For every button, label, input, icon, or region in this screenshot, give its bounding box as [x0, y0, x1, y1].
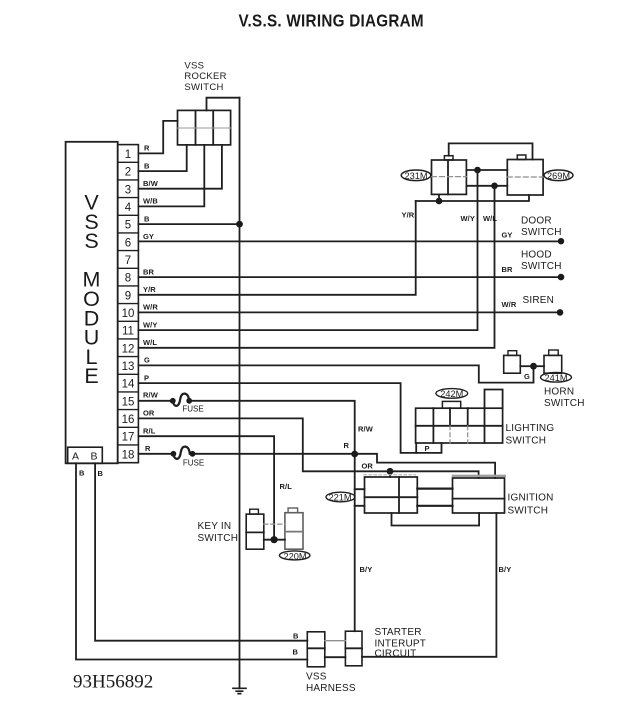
svg-text:B: B	[79, 469, 85, 478]
svg-text:14: 14	[122, 379, 135, 391]
svg-text:S: S	[84, 229, 98, 253]
wire pin11 W/Y	[138, 170, 477, 330]
svg-text:A: A	[72, 451, 79, 463]
svg-text:OR: OR	[362, 461, 374, 470]
svg-text:SWITCH: SWITCH	[508, 506, 549, 517]
svg-text:4: 4	[125, 202, 132, 214]
fuse F1	[170, 394, 192, 406]
svg-text:FUSE: FUSE	[183, 458, 204, 467]
wire pin3 B/W to rocker switch	[138, 145, 222, 189]
svg-text:DOOR: DOOR	[521, 216, 552, 227]
wire pin4 W/B to rocker switch	[138, 145, 204, 207]
label DOOR SWITCH	[521, 216, 562, 238]
svg-text:R: R	[144, 144, 150, 153]
svg-text:W/B: W/B	[143, 197, 158, 206]
svg-text:R/W: R/W	[143, 390, 159, 399]
svg-text:241M: 241M	[545, 373, 568, 383]
svg-text:6: 6	[125, 237, 131, 249]
horn switch left contact box	[504, 351, 521, 373]
stub wires to ignition left box pins	[355, 489, 365, 506]
svg-text:Y/R: Y/R	[402, 210, 415, 219]
label IGNITION SWITCH	[508, 493, 554, 517]
svg-text:15: 15	[122, 396, 135, 408]
wire pin1 R to rocker switch	[138, 121, 177, 153]
svg-text:G: G	[144, 356, 150, 365]
wire rail W/Y between connectors	[466, 169, 507, 171]
ground symbol	[233, 688, 246, 693]
wire dashed rail key-in upper	[264, 523, 285, 525]
svg-text:SWITCH: SWITCH	[544, 398, 585, 409]
wire rail key-in lower	[264, 539, 285, 541]
svg-text:13: 13	[122, 361, 135, 373]
svg-text:B/W: B/W	[143, 179, 159, 188]
svg-text:8: 8	[125, 273, 131, 285]
title V.S.S. WIRING DIAGRAM	[239, 11, 424, 30]
svg-text:G: G	[524, 372, 530, 381]
wire pin18 R with fuse to ignition switch	[138, 454, 495, 478]
svg-text:FUSE: FUSE	[182, 404, 203, 413]
svg-text:SWITCH: SWITCH	[521, 227, 562, 238]
label KEY IN SWITCH	[198, 521, 239, 544]
svg-text:SWITCH: SWITCH	[521, 261, 562, 272]
wire under connectors 231M/269M	[416, 195, 529, 201]
connector 269M box	[507, 155, 543, 195]
stub OR junction to ignition left box	[389, 471, 391, 477]
stub dot to 231M bottom	[438, 194, 440, 201]
wire rail W/L between connectors	[466, 185, 507, 187]
wire horn left contact to junction	[520, 365, 533, 367]
svg-text:SWITCH: SWITCH	[506, 435, 547, 446]
svg-text:93H56892: 93H56892	[73, 672, 153, 693]
svg-text:KEY IN: KEY IN	[198, 521, 232, 532]
wire pin6 GY to door switch	[138, 240, 561, 242]
junction R/L key-in	[271, 536, 278, 543]
junction horn switch	[530, 363, 537, 370]
svg-text:17: 17	[122, 432, 135, 444]
svg-text:B: B	[98, 469, 104, 478]
svg-text:R/L: R/L	[280, 482, 293, 491]
svg-text:W/Y: W/Y	[143, 320, 157, 329]
svg-text:1: 1	[125, 149, 131, 161]
wire pin16 OR to ignition switch	[138, 418, 478, 478]
svg-text:BR: BR	[143, 267, 155, 276]
label STARTER INTERUPT CIRCUIT	[375, 627, 427, 660]
junction pin5/bus	[236, 221, 243, 228]
svg-text:2: 2	[125, 167, 131, 179]
wire pin13 G to horn switch	[138, 365, 533, 382]
junction R / R/W / B/Y	[351, 451, 358, 458]
wire module B to starter interrupt B	[95, 463, 307, 640]
svg-text:W/R: W/R	[143, 303, 158, 312]
wire pin12 W/L	[138, 186, 494, 348]
hood switch terminal dot	[558, 274, 565, 281]
wire pin10 W/R to siren	[138, 311, 560, 313]
wire B/Y middle vertical to starter interrupt	[354, 454, 356, 631]
svg-text:242M: 242M	[440, 389, 463, 399]
svg-text:16: 16	[122, 414, 135, 426]
svg-text:HARNESS: HARNESS	[306, 683, 356, 694]
svg-text:P: P	[144, 373, 149, 382]
svg-text:9: 9	[125, 290, 131, 302]
svg-text:ROCKER: ROCKER	[184, 71, 226, 82]
svg-text:E: E	[84, 364, 98, 388]
ignition switch right connector box	[364, 475, 505, 513]
svg-text:221M: 221M	[329, 493, 352, 503]
wire pin5 B to bus	[138, 223, 239, 225]
siren terminal dot	[557, 309, 564, 316]
svg-text:HORN: HORN	[544, 387, 574, 398]
label HOOD SWITCH	[521, 250, 562, 272]
wire pin14 P to lighting switch	[138, 383, 416, 453]
wire rocker switch top loop to long ground bus	[207, 98, 240, 111]
ignition switch left connector box	[365, 477, 418, 513]
svg-text:W/Y: W/Y	[461, 214, 475, 223]
svg-text:11: 11	[122, 326, 134, 338]
junction OR / ignition left box	[387, 468, 394, 475]
svg-text:GY: GY	[502, 231, 513, 240]
wire pin8 BR to hood switch	[138, 276, 561, 278]
svg-text:5: 5	[125, 220, 131, 232]
horn switch right contact box 241M	[544, 350, 562, 373]
svg-text:W/L: W/L	[483, 214, 497, 223]
connector 269M ellipse label	[544, 170, 573, 181]
svg-text:V.S.S. WIRING DIAGRAM: V.S.S. WIRING DIAGRAM	[239, 11, 424, 30]
svg-text:B/Y: B/Y	[360, 565, 373, 574]
svg-text:W/R: W/R	[502, 300, 517, 309]
svg-text:VSS: VSS	[306, 672, 327, 683]
label LIGHTING SWITCH	[506, 423, 555, 446]
VSS harness left connector box	[307, 632, 325, 667]
svg-text:GY: GY	[143, 232, 154, 241]
svg-text:220M: 220M	[284, 552, 307, 562]
svg-text:B: B	[293, 648, 299, 657]
junction dot under 231M	[436, 198, 443, 205]
wire rail harness lower	[325, 656, 346, 658]
wire junction to 241M	[534, 365, 545, 367]
wire rail harness upper	[325, 640, 346, 642]
junction W/Y	[474, 167, 481, 174]
wire module A to starter interrupt B	[76, 463, 307, 659]
junction W/L	[491, 183, 498, 190]
connector 221M ellipse label	[326, 492, 355, 502]
svg-text:B: B	[90, 451, 97, 463]
svg-text:12: 12	[122, 343, 135, 355]
svg-text:STARTER: STARTER	[375, 627, 422, 638]
wire ignition bottom loop	[392, 513, 480, 526]
svg-text:R: R	[344, 441, 350, 450]
wire rails between ignition boxes	[417, 489, 452, 506]
lighting switch connector box	[416, 390, 503, 453]
wire pin2 B to rocker switch	[138, 145, 186, 171]
svg-text:231M: 231M	[405, 171, 428, 181]
VSS module U1 outline	[66, 142, 118, 464]
VSS module pin connector strip (pins 1-18)	[118, 145, 139, 463]
connector 241M ellipse label	[541, 373, 572, 384]
connector 220M ellipse label	[279, 551, 310, 562]
label VSS HARNESS	[306, 672, 356, 694]
svg-text:Y/R: Y/R	[143, 285, 156, 294]
svg-text:B: B	[144, 214, 150, 223]
VSS rocker switch label	[184, 61, 226, 93]
connector 231M box	[432, 156, 467, 195]
svg-text:B: B	[144, 161, 150, 170]
VSS module vertical lettering	[83, 191, 101, 389]
svg-text:R: R	[145, 444, 151, 453]
svg-text:HOOD: HOOD	[521, 250, 552, 261]
svg-text:CIRCUIT: CIRCUIT	[375, 649, 417, 660]
svg-text:SIREN: SIREN	[523, 295, 555, 306]
key in switch right contact box	[285, 508, 303, 549]
wire B/Y right from ignition to starter interrupt	[362, 513, 496, 657]
key in switch left contact box	[246, 509, 264, 549]
label HORN SWITCH	[544, 387, 585, 409]
svg-text:IGNITION: IGNITION	[508, 493, 554, 504]
lighting switch tall cell	[485, 390, 503, 409]
wire pin15 R/W with fuse	[138, 401, 354, 454]
long vertical bus wire to ground	[239, 98, 241, 689]
svg-text:269M: 269M	[547, 171, 570, 181]
door switch terminal dot	[558, 238, 564, 244]
lighting switch top bump	[442, 401, 460, 408]
svg-text:B: B	[293, 631, 299, 640]
wire pin9 Y/R to connector 231M	[138, 201, 415, 295]
connector 242M ellipse label	[436, 389, 468, 399]
svg-text:OR: OR	[143, 409, 155, 418]
svg-text:10: 10	[122, 308, 135, 320]
svg-text:B/Y: B/Y	[499, 565, 512, 574]
svg-text:W/L: W/L	[143, 338, 157, 347]
VSS module A/B connector box	[68, 447, 103, 463]
svg-text:BR: BR	[502, 265, 514, 274]
fuse F2	[171, 447, 196, 459]
svg-text:LIGHTING: LIGHTING	[506, 423, 555, 434]
VSS harness right connector box	[345, 631, 362, 666]
svg-text:SWITCH: SWITCH	[184, 82, 223, 93]
svg-text:VSS: VSS	[184, 61, 204, 72]
svg-text:7: 7	[125, 255, 131, 267]
connector 231M ellipse label	[401, 170, 431, 181]
wire pin17 R/L to key-in switch	[138, 436, 274, 540]
svg-text:SWITCH: SWITCH	[198, 533, 239, 544]
svg-text:R/W: R/W	[358, 425, 374, 434]
svg-text:P: P	[425, 444, 430, 453]
VSS rocker switch S1 (3x2 connector)	[178, 110, 231, 144]
lighting switch P stub	[416, 443, 441, 453]
svg-text:3: 3	[125, 184, 131, 196]
svg-text:R/L: R/L	[143, 426, 156, 435]
wire loop over connectors	[449, 143, 533, 159]
svg-text:18: 18	[122, 449, 135, 461]
